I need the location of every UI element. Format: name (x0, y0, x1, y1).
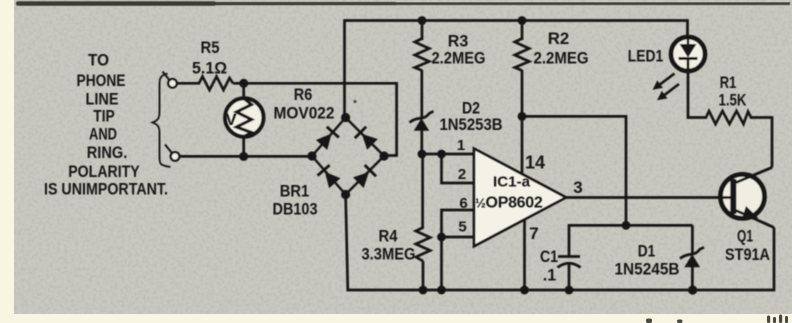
svg-text:PHONE: PHONE (77, 71, 126, 90)
node D2 / pin1 (418, 150, 427, 159)
zener D2 (410, 111, 434, 122)
capacitor C1 curved bottom plate (558, 263, 581, 267)
node bridge right (379, 151, 388, 160)
svg-text:TO: TO (88, 51, 109, 70)
wire: R5 to bridge right node (233, 83, 397, 155)
wire: pins 1-2 tie (442, 154, 475, 183)
svg-text:2: 2 (458, 166, 466, 183)
transistor Q1 circle (721, 174, 765, 218)
wire: op-amp pin 5 stub and tie to ground (442, 237, 475, 290)
node C1 ground (565, 286, 574, 295)
node R2 top (518, 16, 527, 25)
svg-text:7: 7 (529, 224, 538, 243)
LED1 emission arrow upper (653, 74, 675, 90)
wire: op-amp output to Q1 base (565, 196, 732, 199)
svg-text:R5: R5 (201, 38, 220, 57)
svg-text:1N5253B: 1N5253B (440, 115, 503, 134)
wire: D1 to ground rail (691, 266, 694, 290)
svg-text:MOV022: MOV022 (274, 104, 335, 123)
capacitor C1 top plate (558, 255, 580, 258)
node pin7 ground (520, 286, 529, 295)
resistor R1 body (706, 111, 751, 124)
zener D1 (691, 225, 694, 255)
resistor R4 body (416, 228, 430, 262)
transistor Q1 base bar (730, 179, 736, 214)
label TO PHONE LINE TIP AND RING POLARITY IS UNIMPORTANT (44, 51, 168, 199)
transistor Q1 base stub (721, 196, 733, 199)
resistor R2 body (515, 39, 529, 71)
svg-text:.1: .1 (543, 266, 557, 285)
svg-text:D1: D1 (638, 242, 656, 261)
transistor Q1 emitter lead (736, 211, 774, 228)
wire: R2 vertical rail (521, 21, 524, 41)
svg-text:IS UNIMPORTANT.: IS UNIMPORTANT. (44, 180, 168, 199)
resistor R3 body (415, 39, 429, 71)
svg-text:Q1: Q1 (737, 227, 753, 246)
diode BR1-d (bottom to right) (353, 165, 376, 188)
svg-text:R6: R6 (294, 85, 313, 104)
svg-text:RING.: RING. (87, 143, 128, 162)
wire: R4 to ground rail (422, 261, 425, 290)
svg-text:V: V (225, 110, 237, 129)
LED1 diode symbol (687, 38, 689, 46)
varistor R6 lead top (242, 83, 245, 100)
bridge rectifier BR1 diamond (312, 118, 384, 195)
svg-text:TIP: TIP (93, 107, 115, 126)
node C1-D1 line junction (622, 221, 631, 230)
svg-text:½OP8602: ½OP8602 (475, 195, 543, 212)
terminal tick bottom (165, 145, 172, 153)
wire: R1 to Q1 collector (750, 118, 772, 168)
node R6 bottom junction (239, 152, 248, 161)
svg-text:DB103: DB103 (273, 200, 318, 219)
diode BR1-c (bottom to left) (318, 165, 341, 188)
svg-text:R1: R1 (720, 73, 737, 92)
scan fleck near bridge (353, 100, 356, 103)
wire: D2 to pin1 node (420, 129, 423, 154)
svg-text:IC1-a: IC1-a (493, 175, 531, 191)
svg-text:2.2MEG: 2.2MEG (534, 49, 589, 68)
dark scan bar along top edge (19, 2, 790, 5)
wire: R2 to pin 14 (521, 70, 524, 175)
LED1 circle (671, 37, 705, 71)
wire: op-amp pin 1 stub (422, 153, 474, 156)
svg-text:6: 6 (459, 195, 467, 212)
svg-text:3.3MEG: 3.3MEG (362, 245, 416, 264)
svg-text:C1: C1 (540, 247, 558, 266)
wire: LED1 to R1 (688, 70, 707, 118)
svg-text:1.5K: 1.5K (719, 91, 748, 110)
wire: supply node over to zener D1 branch (522, 116, 626, 225)
svg-text:1N5245B: 1N5245B (615, 260, 680, 279)
terminal tick top (163, 72, 170, 80)
node D1 ground (688, 285, 697, 294)
varistor R6 zigzag (237, 99, 252, 137)
svg-text:LED1: LED1 (628, 47, 664, 66)
svg-text:POLARITY: POLARITY (68, 162, 140, 181)
diode BR1-b (right to top) (355, 127, 378, 150)
node R3 top (418, 16, 427, 25)
node R2 / pin14 supply (518, 112, 527, 121)
wire: R3/D2/R4 vertical rail (421, 21, 424, 41)
svg-text:R2: R2 (548, 29, 570, 48)
terminal circle top (168, 79, 177, 88)
svg-text:3: 3 (573, 178, 582, 197)
node pin5 tie (437, 233, 446, 242)
LED1 emission arrow lower (657, 84, 679, 100)
transistor Q1 collector lead (736, 167, 772, 182)
terminal circle bottom (171, 152, 180, 161)
wire: pin1 node to R4 (421, 154, 424, 229)
svg-text:1: 1 (457, 137, 465, 154)
wire: op-amp pin 7 to ground (523, 220, 526, 291)
node pin1-2 tie (437, 150, 446, 159)
node R5/R6 junction (239, 79, 248, 88)
varistor R6 lead bottom (242, 137, 245, 156)
wire: R3 to D2 (420, 70, 423, 119)
wire: phone ring wire to bridge left node (179, 155, 312, 158)
node bridge bottom (341, 190, 350, 199)
wire: phone tip wire from terminal to R5 (177, 82, 201, 85)
node R4 ground (419, 286, 428, 295)
svg-text:R4: R4 (379, 227, 398, 246)
svg-text:BR1: BR1 (280, 182, 310, 201)
node bridge left (307, 151, 316, 160)
svg-text:14: 14 (525, 153, 545, 173)
wire: op-amp pin 6 stub (442, 210, 475, 237)
node tie ground (437, 286, 446, 295)
svg-text:2.2MEG: 2.2MEG (432, 49, 486, 68)
diode BR1-a (left to top) (316, 127, 339, 150)
transistor Q1 emitter arrowhead (743, 206, 759, 218)
curly brace at phone line (153, 74, 171, 168)
varistor R6 circle (225, 98, 263, 136)
resistor R5 body (199, 77, 233, 91)
node bridge top (341, 113, 350, 122)
wire: bridge bottom lead to ground rail (346, 195, 774, 291)
svg-text:AND: AND (89, 125, 117, 144)
svg-text:5: 5 (458, 219, 466, 236)
wire: top positive rail (345, 21, 688, 118)
op-amp U1 triangle (474, 149, 566, 247)
svg-text:ST91A: ST91A (725, 245, 770, 264)
cropped text marks in bottom margin (646, 315, 788, 323)
wire: C1 top line to D1 (569, 225, 693, 256)
wire: C1 to ground rail (568, 265, 571, 291)
svg-text:5.1Ω: 5.1Ω (192, 59, 227, 78)
